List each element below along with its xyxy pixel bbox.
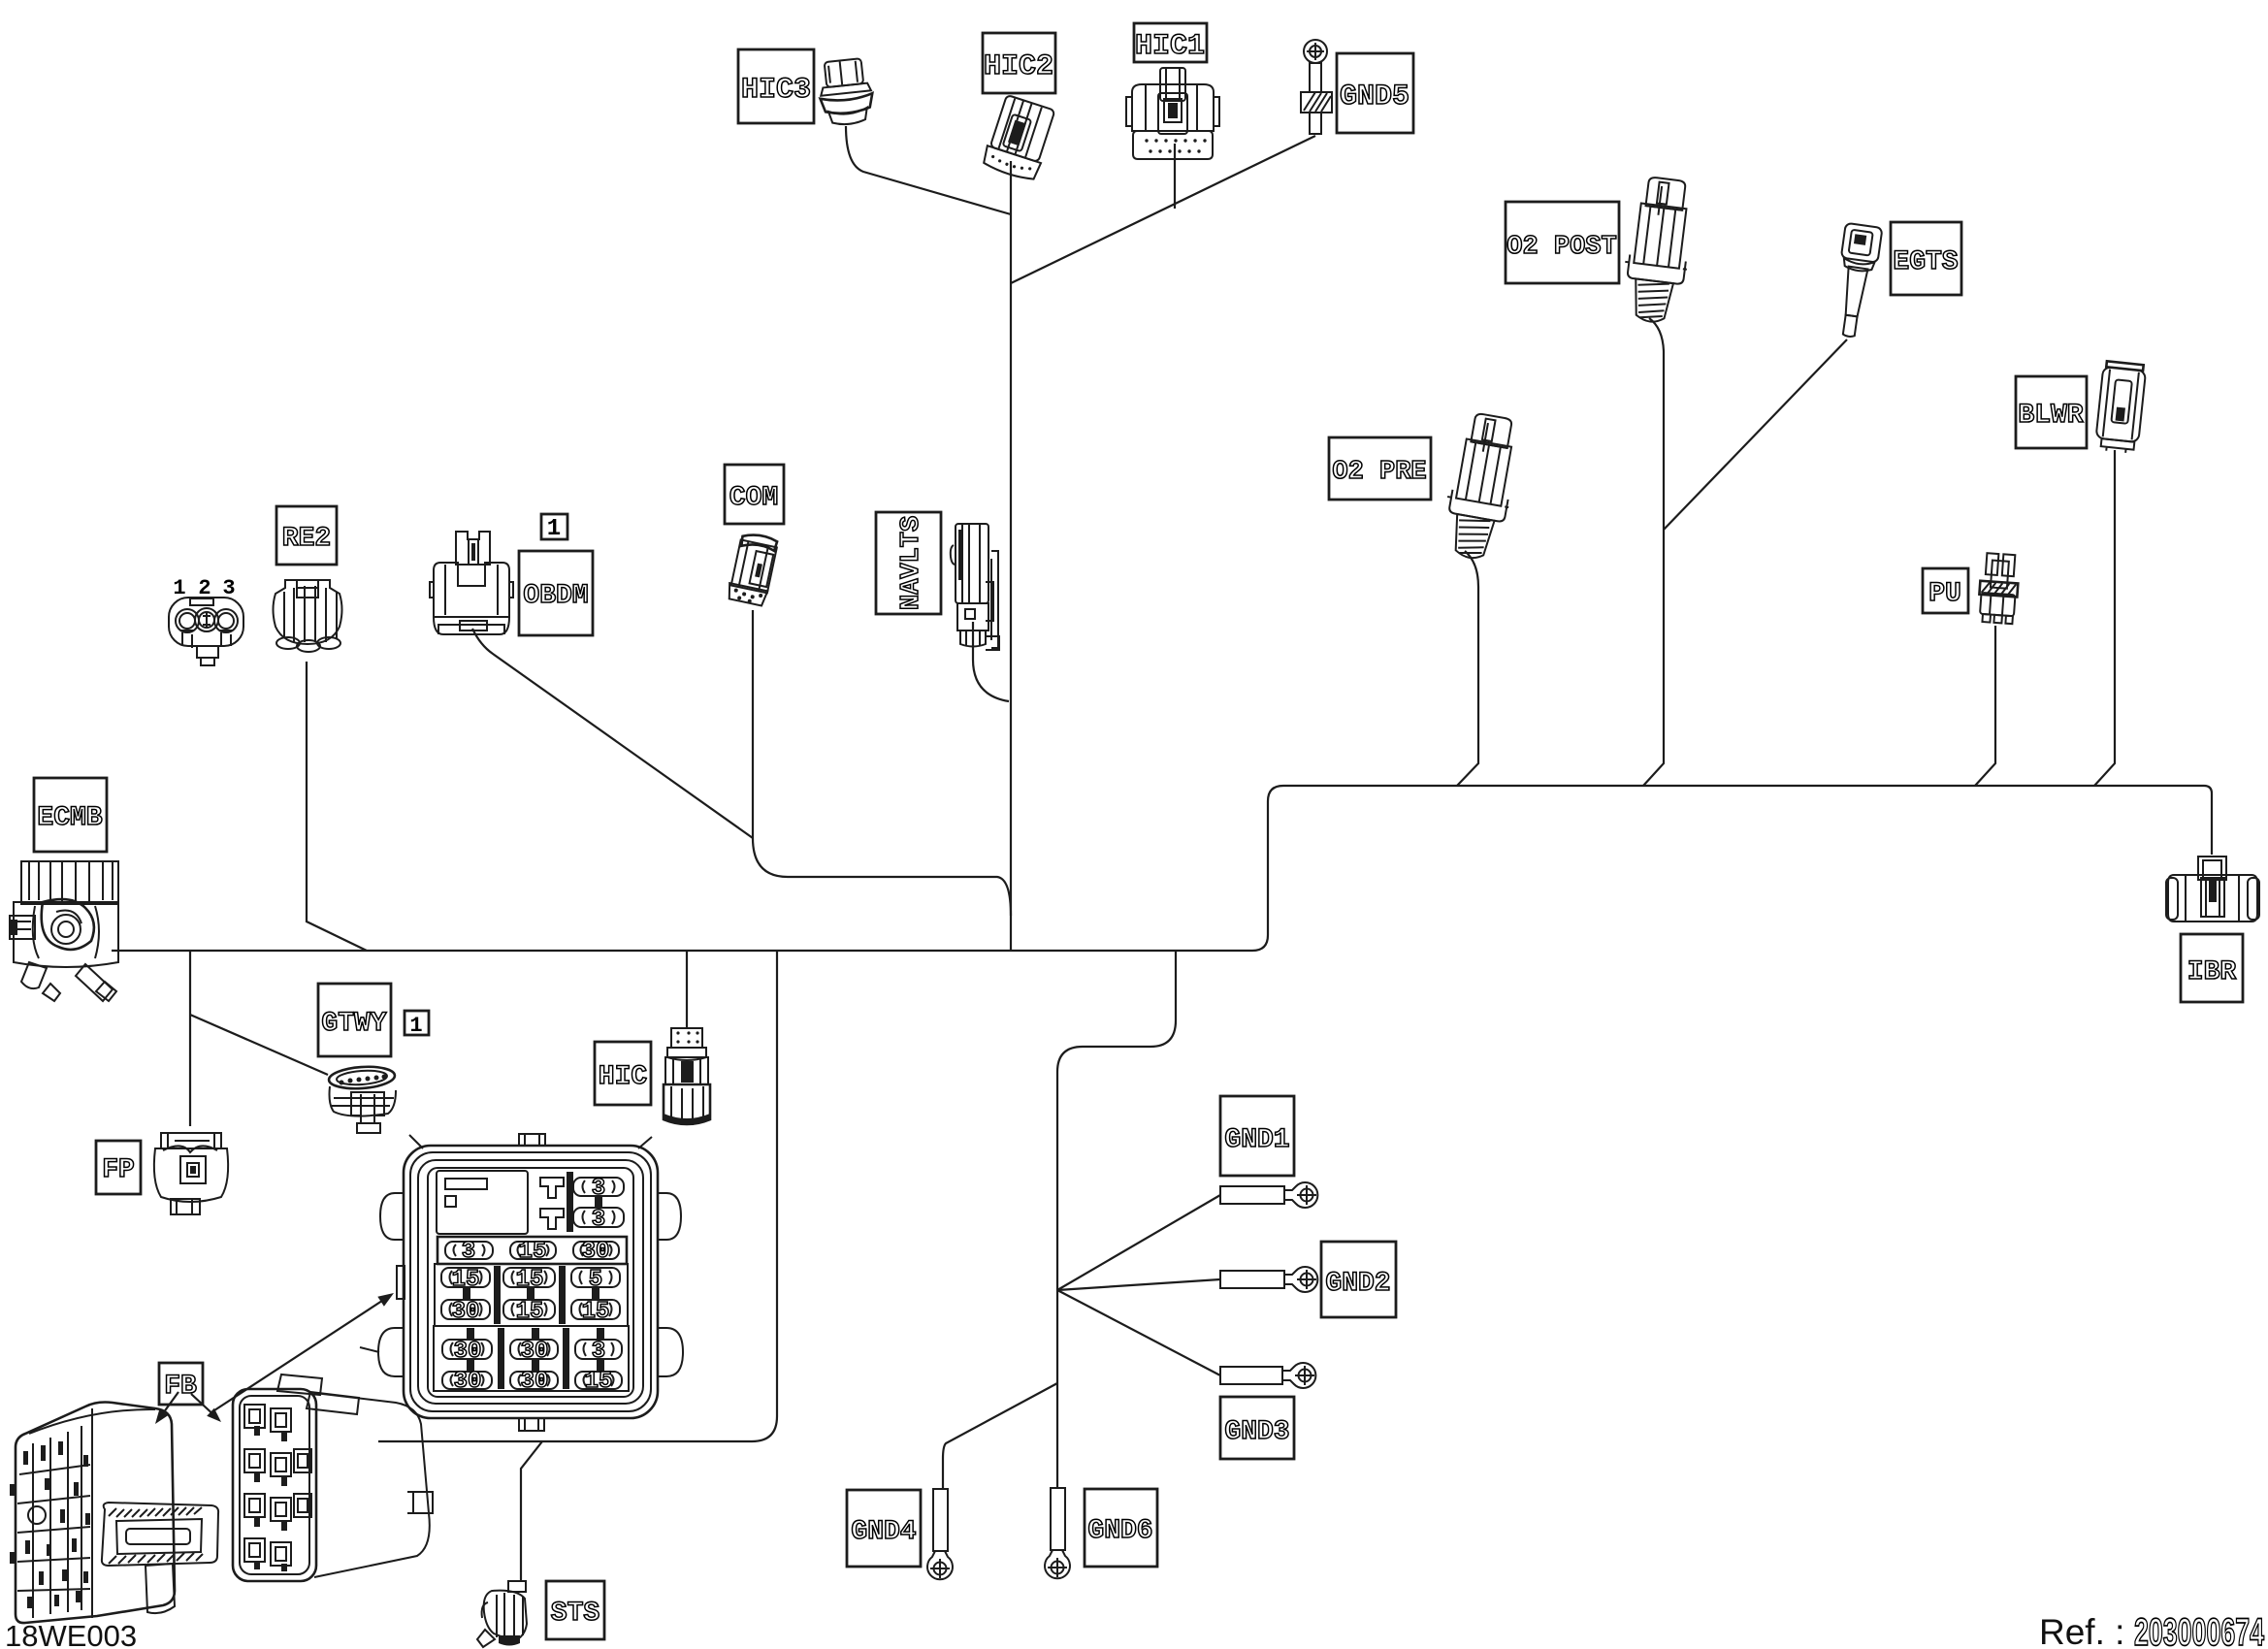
wire FP drop [189, 951, 191, 1126]
fuse box relay area [437, 1171, 528, 1234]
svg-text:1: 1 [547, 516, 561, 542]
label HIC [595, 1042, 651, 1105]
FB mating connector housing [233, 1374, 433, 1581]
wire HIC2 main vertical [1010, 161, 1012, 951]
ground lug GND3 [1220, 1363, 1315, 1388]
label FP [96, 1141, 141, 1194]
connector STS [477, 1581, 527, 1647]
svg-text:15: 15 [582, 1299, 610, 1325]
ground lug GND1 [1220, 1182, 1317, 1208]
wire HIC1 [1174, 144, 1176, 209]
FB arrow to fuse box [214, 1293, 394, 1410]
wire GND1 branch [1057, 1195, 1220, 1290]
connector GTWY [328, 1065, 396, 1133]
svg-text:RE2: RE2 [282, 524, 331, 554]
connector HIC1 [1126, 68, 1219, 159]
svg-text:EGTS: EGTS [1893, 247, 1958, 277]
connector PU [1977, 553, 2020, 625]
label GND5 [1337, 53, 1413, 133]
label EGTS [1891, 222, 1961, 295]
svg-text:18WE003: 18WE003 [5, 1619, 137, 1649]
connector EGTS [1831, 223, 1883, 339]
svg-text:15: 15 [585, 1369, 613, 1395]
svg-text:NAVLTS: NAVLTS [897, 516, 926, 610]
label IBR [2181, 934, 2243, 1002]
svg-text:ECMB: ECMB [37, 803, 102, 833]
svg-text:BLWR: BLWR [2018, 401, 2083, 431]
label RE2 [276, 506, 337, 565]
fuse box FB outer shell [360, 1134, 683, 1431]
wire EGTS diagonal [1664, 339, 1847, 530]
svg-text:GND2: GND2 [1325, 1269, 1390, 1299]
connector O2 POST [1618, 176, 1698, 326]
svg-text:5: 5 [589, 1267, 602, 1293]
label GND6 [1085, 1489, 1157, 1567]
svg-text:3: 3 [592, 1176, 605, 1202]
wire GND tree trunk [1057, 951, 1176, 1488]
fuse box bottom block [434, 1326, 629, 1395]
svg-text:3: 3 [462, 1239, 475, 1265]
wire GND5 diagonal [1011, 136, 1315, 283]
svg-text:COM: COM [729, 483, 778, 513]
FOOTER [5, 1611, 2265, 1649]
label GND1 [1220, 1096, 1294, 1176]
label NAVLTS [876, 512, 941, 614]
svg-text:1: 1 [173, 576, 185, 600]
svg-text:GND3: GND3 [1224, 1417, 1289, 1447]
svg-text:30: 30 [521, 1369, 549, 1395]
wire STS branch [521, 1441, 542, 1581]
connector FP [154, 1133, 228, 1214]
connector COM [727, 532, 779, 606]
wire GND3 branch [1057, 1290, 1220, 1375]
ground lug GND5 [1301, 40, 1332, 134]
svg-text:GND4: GND4 [851, 1517, 916, 1547]
label GND3 [1220, 1397, 1294, 1459]
svg-text:STS: STS [551, 1599, 599, 1629]
wire PU drop [1975, 626, 1995, 786]
connector RE2 [274, 580, 342, 652]
svg-text:GND6: GND6 [1087, 1516, 1152, 1546]
svg-text:3: 3 [222, 576, 235, 600]
connector HIC [664, 1028, 710, 1125]
svg-text:15: 15 [519, 1239, 547, 1265]
fuse box middle block [435, 1264, 628, 1326]
wire GTWY branch [190, 1015, 328, 1075]
svg-text:30: 30 [452, 1299, 480, 1325]
wire BLWR drop [2094, 450, 2115, 786]
label STS [546, 1581, 604, 1639]
svg-text:HIC3: HIC3 [741, 74, 811, 107]
connector O2 PRE [1438, 410, 1524, 563]
connector OBDM [430, 532, 513, 634]
label O2 PRE [1329, 437, 1431, 500]
label HIC3 [738, 49, 814, 123]
svg-text:FP: FP [102, 1155, 135, 1185]
svg-text:30: 30 [582, 1239, 610, 1265]
svg-text:3: 3 [592, 1207, 605, 1233]
label GTWY 1 [405, 1011, 429, 1038]
FB main connector housing [10, 1403, 218, 1624]
label BLWR [2016, 376, 2087, 448]
FB CONNECTORS [10, 1293, 433, 1623]
svg-text:O2 POST: O2 POST [1507, 233, 1616, 262]
wire RE2 drop [307, 662, 367, 951]
label OBDM [519, 551, 593, 635]
connector HIC3 [817, 57, 876, 126]
svg-text:FB: FB [164, 1372, 197, 1402]
label COM [725, 465, 784, 524]
wire COM [753, 610, 1011, 916]
label ECMB [34, 778, 107, 852]
svg-text:GND1: GND1 [1224, 1125, 1289, 1155]
svg-text:HIC: HIC [599, 1062, 648, 1092]
wire main bus harness [112, 786, 2212, 951]
ground lug GND2 [1220, 1267, 1317, 1292]
wire fuse box feed [378, 951, 777, 1441]
fuse box top-right fuses [540, 1172, 624, 1233]
wire O2 POST drop [1643, 318, 1664, 786]
wire O2 PRE drop [1457, 551, 1478, 786]
svg-text:Ref. :: Ref. : [2039, 1612, 2124, 1649]
svg-text:30: 30 [521, 1339, 549, 1365]
label GTWY [318, 984, 391, 1056]
FUSE BOX [360, 1134, 683, 1431]
ground lug GND6 [1045, 1488, 1070, 1578]
wire HIC drop [686, 951, 688, 1027]
FB arrow right [191, 1394, 221, 1422]
svg-text:HIC2: HIC2 [984, 50, 1053, 83]
svg-text:30: 30 [454, 1369, 482, 1395]
label OBDM 1 [541, 514, 567, 542]
label GND4 [847, 1490, 921, 1567]
svg-text:IBR: IBR [2187, 957, 2237, 987]
label HIC2 [983, 33, 1055, 93]
svg-text:15: 15 [516, 1299, 544, 1325]
svg-text:HIC1: HIC1 [1135, 30, 1205, 63]
connector 3-pin (1 2 3) [169, 598, 243, 665]
label GND2 [1321, 1242, 1396, 1317]
label PU [1923, 568, 1968, 613]
svg-text:2: 2 [198, 576, 211, 600]
svg-text:GTWY: GTWY [321, 1009, 386, 1039]
svg-text:GND5: GND5 [1340, 81, 1409, 113]
svg-text:15: 15 [516, 1267, 544, 1293]
connector ECMB [10, 861, 118, 1001]
ground lug GND4 [927, 1489, 953, 1579]
svg-text:OBDM: OBDM [523, 581, 588, 611]
connector HIC2 [981, 94, 1057, 182]
wire HIC3 [846, 126, 1011, 214]
svg-text:3: 3 [592, 1339, 605, 1365]
svg-text:O2 PRE: O2 PRE [1332, 458, 1426, 487]
wire GND4 branch [943, 1383, 1057, 1489]
wire NAVLTS [973, 622, 1009, 701]
svg-text:30: 30 [454, 1339, 482, 1365]
svg-text:15: 15 [452, 1267, 480, 1293]
svg-text:203000674: 203000674 [2134, 1611, 2265, 1649]
label FB [159, 1363, 203, 1405]
fuse box strip row [437, 1237, 627, 1265]
connector IBR [2166, 857, 2259, 921]
connector NAVLTS [951, 524, 999, 650]
wire OBDM [472, 629, 753, 838]
FB arrow left [155, 1392, 178, 1424]
label HIC1 [1134, 23, 1207, 63]
pin numbers 1 2 3 [173, 576, 235, 600]
connector BLWR [2094, 361, 2146, 454]
wire GND2 branch [1057, 1279, 1220, 1290]
svg-text:PU: PU [1928, 579, 1961, 609]
label O2 POST [1506, 202, 1619, 283]
svg-text:1: 1 [409, 1014, 422, 1038]
